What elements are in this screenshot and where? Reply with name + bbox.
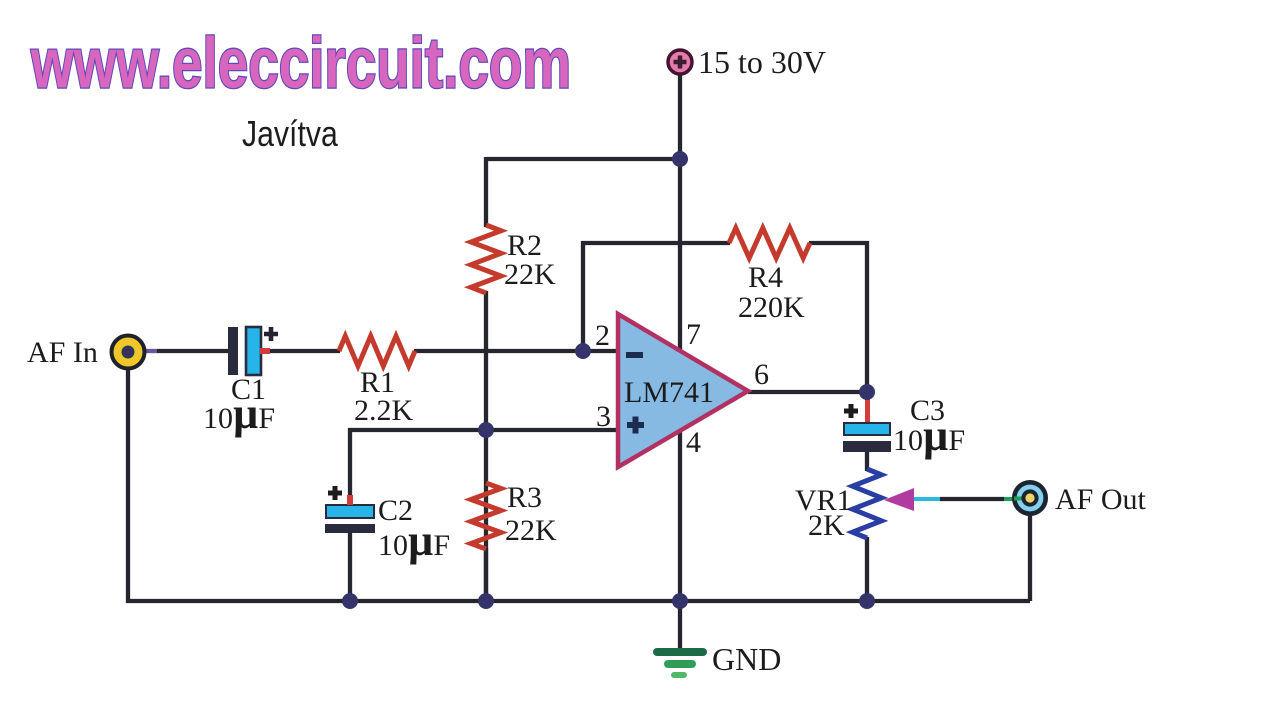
potentiometer VR1 wiper arrow: [884, 488, 914, 511]
wire AF Out green segment: [1004, 497, 1016, 501]
wire wiper to AF Out dark segment: [940, 497, 1004, 501]
wire AF Out down to ground rail: [1028, 514, 1032, 601]
svg-text:220K: 220K: [738, 291, 805, 324]
svg-text:3: 3: [596, 400, 611, 433]
svg-text:R3: R3: [507, 481, 542, 514]
wire power vertical V+ to ground rail: [678, 72, 682, 648]
svg-text:4: 4: [686, 426, 701, 459]
svg-text:AF In: AF In: [27, 336, 98, 369]
svg-text:www.eleccircuit.com: www.eleccircuit.com: [30, 25, 571, 103]
wire R4 right lead down to output node: [809, 243, 867, 393]
wire wiper to AF Out cyan segment: [913, 497, 940, 501]
svg-text:Javítva: Javítva: [242, 115, 338, 155]
svg-text:2.2K: 2.2K: [354, 394, 414, 427]
svg-text:22K: 22K: [504, 258, 556, 291]
wire R1 to pin2 node: [414, 349, 584, 353]
wire AF In purple stub: [146, 349, 157, 353]
wire top horizontal V+ to R2: [486, 157, 682, 161]
capacitor C2: [325, 486, 375, 533]
op-amp U1 LM741: [618, 314, 748, 467]
junction node pin2: [575, 343, 591, 359]
svg-text:15 to 30V: 15 to 30V: [698, 44, 826, 80]
wire pin3 horizontal and down to C2: [350, 430, 619, 507]
junction node at V+ rail: [672, 151, 688, 167]
svg-text:GND: GND: [712, 641, 781, 677]
wire op-amp output pin6: [748, 390, 869, 394]
resistor R4: [729, 228, 810, 258]
wire VR1 bottom lead to ground rail: [865, 537, 869, 603]
wire R2 bottom lead down to ground rail: [484, 291, 488, 601]
wire AF In down to ground rail: [126, 368, 130, 603]
junction node output pin6: [859, 384, 875, 400]
svg-text:2K: 2K: [808, 509, 845, 542]
wire R3 bottom lead: [484, 548, 488, 603]
junction node pin3 / R3 top: [478, 422, 494, 438]
junction node ground rail C2: [342, 593, 358, 609]
svg-text:6: 6: [754, 358, 769, 391]
svg-text:R4: R4: [748, 261, 783, 294]
wire R2 top lead: [484, 157, 488, 227]
wire AF In to C1: [146, 349, 230, 353]
svg-text:AF Out: AF Out: [1055, 483, 1147, 516]
svg-text:2: 2: [595, 319, 610, 352]
connector AF Out: [1014, 482, 1046, 513]
wire feedback from pin2 up and right to R4: [583, 243, 730, 352]
resistor R1: [339, 336, 415, 366]
potentiometer VR1: [853, 469, 882, 538]
resistor R2: [471, 225, 501, 293]
junction node ground rail center: [672, 593, 688, 609]
capacitor C1: [228, 327, 278, 375]
wire C2 bottom lead: [348, 532, 352, 603]
svg-text:7: 7: [686, 318, 701, 351]
resistor R3: [471, 483, 501, 549]
connector AF In: [112, 336, 145, 369]
junction node ground rail VR1: [859, 593, 875, 609]
svg-text:10µF: 10µF: [893, 411, 965, 460]
wire pin2 stub: [581, 349, 620, 353]
junction node ground rail R3: [478, 593, 494, 609]
capacitor C3: [843, 398, 891, 452]
svg-text:LM741: LM741: [624, 376, 714, 409]
wire ground rail: [126, 599, 1030, 603]
ground symbol: [653, 648, 707, 678]
wire C3 bottom lead to VR1: [865, 452, 869, 471]
power terminal 15 to 30V: [668, 50, 692, 74]
wire C1 to R1: [262, 349, 340, 353]
svg-text:22K: 22K: [505, 514, 557, 547]
